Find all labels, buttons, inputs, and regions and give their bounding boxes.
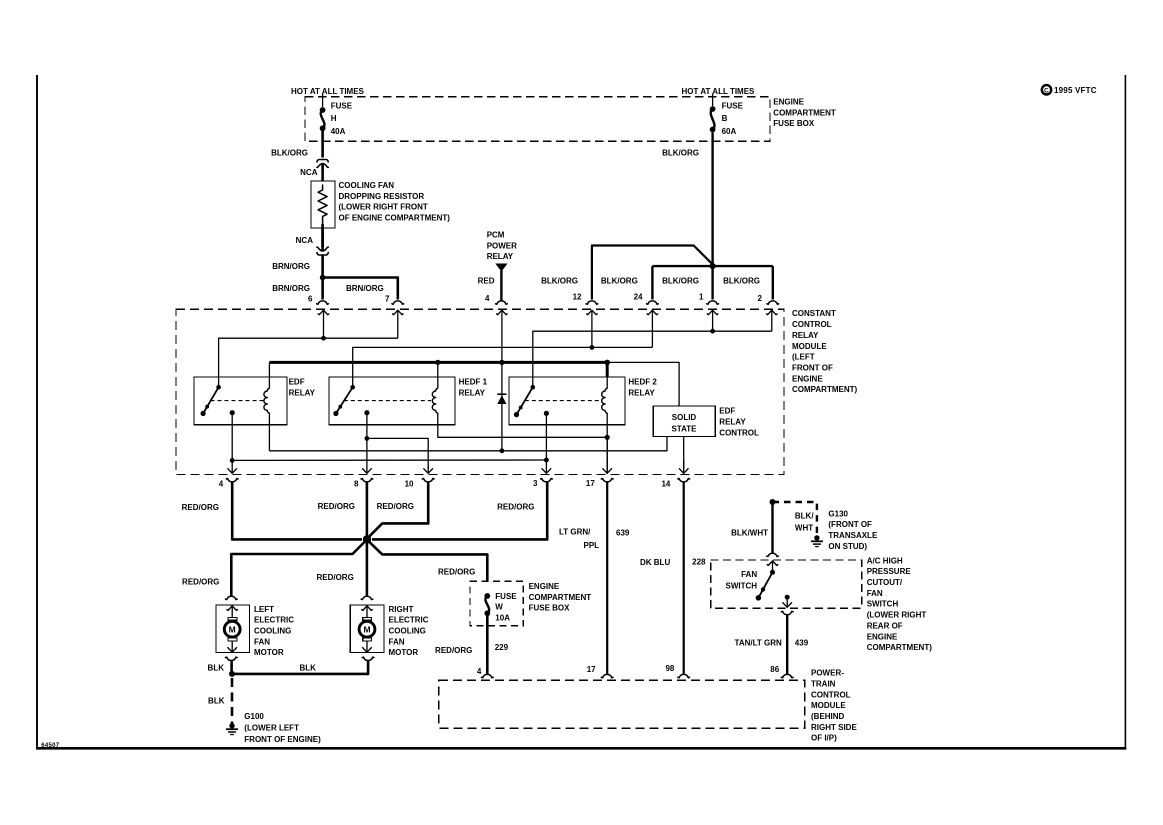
wire TAN/LT GRN 439 (786, 615, 788, 674)
pin 2 entry arrow (771, 310, 773, 331)
pin 10 exit arrow (427, 466, 429, 473)
border bottom (36, 747, 1126, 750)
wire RED/ORG pin 3 to splice (372, 482, 547, 540)
svg-text:439: 439 (795, 638, 809, 647)
svg-text:RED/ORG: RED/ORG (497, 503, 534, 512)
svg-text:RED/ORG: RED/ORG (318, 502, 355, 511)
EDF relay box (194, 377, 287, 425)
svg-text:86: 86 (770, 665, 779, 674)
svg-text:98: 98 (665, 664, 674, 673)
wire bus to solid state (607, 362, 679, 406)
pin 6 entry arrow (323, 310, 325, 338)
svg-text:BRN/ORG: BRN/ORG (272, 284, 310, 293)
fan switch bottom connector (781, 611, 793, 614)
svg-text:BLK/ORG: BLK/ORG (601, 276, 638, 285)
svg-text:TRANSAXLE: TRANSAXLE (828, 531, 878, 540)
pin 24 connector (647, 301, 659, 304)
EDF switch (203, 387, 219, 413)
right electric cooling fan motor (361, 596, 373, 599)
fan switch connector top (767, 553, 779, 556)
svg-text:WHT: WHT (795, 523, 813, 532)
svg-text:LEFT: LEFT (254, 605, 274, 614)
svg-text:B: B (722, 114, 728, 123)
svg-text:FUSE: FUSE (331, 102, 353, 111)
svg-text:10: 10 (405, 480, 414, 489)
svg-text:RELAY: RELAY (792, 331, 819, 340)
HEDF2 armature dashed link (525, 400, 601, 402)
svg-text:4: 4 (477, 667, 482, 676)
svg-text:ON STUD): ON STUD) (828, 542, 867, 551)
svg-text:FAN: FAN (867, 589, 883, 598)
svg-text:TRAIN: TRAIN (811, 679, 836, 688)
left electric cooling fan motor (225, 596, 237, 599)
svg-text:COMPARTMENT: COMPARTMENT (773, 108, 836, 117)
left motor bottom connector (225, 657, 237, 660)
svg-text:12: 12 (573, 293, 582, 302)
svg-text:RIGHT SIDE: RIGHT SIDE (811, 723, 857, 732)
svg-text:RED/ORG: RED/ORG (316, 573, 353, 582)
svg-text:639: 639 (616, 528, 630, 537)
fan switch output contact (785, 595, 790, 600)
node RED/ORG splice (363, 535, 371, 543)
constant control relay module box (176, 309, 784, 474)
pin 4 bottom connector (226, 479, 238, 482)
svg-text:RELAY: RELAY (628, 388, 655, 397)
svg-text:CUTOUT/: CUTOUT/ (867, 578, 903, 587)
node BLK splice (229, 671, 235, 677)
node BLK/WHT splice (770, 499, 776, 505)
cooling fan dropping resistor box (311, 181, 335, 228)
wire coil low to pin 17 (606, 437, 608, 469)
svg-text:64507: 64507 (41, 743, 60, 749)
wire pins 1/2 to HEDF2 switch (533, 331, 772, 387)
fan switch entry arrow (772, 561, 774, 572)
wire pins 6/7 to EDF switch (219, 338, 398, 387)
svg-text:FUSE: FUSE (495, 592, 517, 601)
wire LT GRN/PPL 639 (606, 482, 608, 674)
svg-text:MOTOR: MOTOR (254, 648, 284, 657)
svg-text:24: 24 (634, 293, 643, 302)
ground G130 (814, 535, 819, 540)
pin 14 exit arrow (683, 460, 685, 473)
fuse H 40A (320, 107, 326, 113)
wire EDF output to HEDF2 output link (232, 459, 546, 461)
HEDF1 relay box (329, 377, 455, 425)
svg-text:ENGINE: ENGINE (529, 582, 560, 591)
wire HEDF1 coil to HEDF2 coil low side (438, 426, 607, 437)
pin 7 connector (392, 301, 404, 304)
svg-text:ENGINE: ENGINE (792, 374, 823, 383)
svg-text:ELECTRIC: ELECTRIC (389, 616, 429, 625)
svg-text:(FRONT OF: (FRONT OF (828, 520, 872, 529)
svg-text:LT GRN/: LT GRN/ (559, 528, 591, 537)
svg-text:(LOWER RIGHT: (LOWER RIGHT (867, 611, 927, 620)
pin 24 entry arrow (651, 310, 653, 347)
svg-text:FUSE BOX: FUSE BOX (773, 119, 815, 128)
wire DK BLU (683, 482, 685, 674)
HEDF1 armature dashed link (344, 400, 431, 402)
node diode tap (499, 360, 504, 365)
pin 12 entry arrow (591, 310, 593, 347)
pin 4 exit arrow (231, 460, 233, 473)
wire fuse H feed (322, 94, 324, 108)
svg-text:W: W (495, 603, 503, 612)
svg-text:RELAY: RELAY (289, 388, 316, 397)
EDF coil (268, 362, 270, 388)
pin 17 bottom connector (601, 479, 613, 482)
svg-text:RED/ORG: RED/ORG (435, 646, 472, 655)
wire branch to pin 10 (367, 438, 428, 469)
svg-text:BLK: BLK (300, 663, 317, 672)
svg-text:EDF: EDF (289, 377, 305, 386)
pin 6 connector (317, 301, 329, 304)
PCM pin 17 connector (601, 674, 613, 677)
wire EDF coil low / solid state drive (269, 436, 667, 451)
svg-text:17: 17 (587, 665, 596, 674)
svg-text:8: 8 (354, 480, 359, 489)
svg-text:14: 14 (661, 480, 670, 489)
svg-text:FAN: FAN (389, 637, 405, 646)
svg-text:ENGINE: ENGINE (867, 632, 898, 641)
HEDF2 switch (517, 387, 533, 414)
svg-text:RED/ORG: RED/ORG (377, 502, 414, 511)
svg-text:RELAY: RELAY (487, 252, 514, 261)
svg-text:HEDF 1: HEDF 1 (459, 377, 488, 386)
wire BRN/ORG to pin 6 (321, 278, 324, 300)
copyright 1995 VFTC (1042, 85, 1051, 94)
node pin 12 junction (590, 345, 595, 350)
svg-text:BLK/ORG: BLK/ORG (723, 276, 760, 285)
HEDF1 switch (336, 387, 353, 413)
svg-text:BLK/ORG: BLK/ORG (271, 148, 308, 157)
svg-text:M: M (229, 624, 236, 634)
svg-text:SOLID: SOLID (672, 413, 697, 422)
wire BLK to ground G100 (dashed) (231, 678, 234, 724)
HEDF1 coil (437, 362, 439, 388)
wire BLK/WHT to G130 (dashed) (773, 502, 817, 533)
pin 2 connector (767, 301, 779, 304)
pin 8 exit arrow (366, 438, 368, 473)
PCM pin 4 connector (481, 674, 493, 677)
svg-text:H: H (331, 114, 337, 123)
svg-text:FAN: FAN (254, 637, 270, 646)
HEDF2 coil (606, 377, 608, 388)
svg-text:RED/ORG: RED/ORG (438, 568, 475, 577)
wire BRN/ORG (321, 255, 324, 278)
svg-text:EDF: EDF (719, 407, 735, 416)
fan switch (770, 570, 775, 575)
svg-text:10A: 10A (495, 614, 510, 623)
svg-text:(LEFT: (LEFT (792, 353, 815, 362)
svg-text:G130: G130 (828, 509, 848, 518)
svg-text:MODULE: MODULE (792, 342, 827, 351)
svg-text:229: 229 (495, 643, 509, 652)
svg-text:17: 17 (586, 479, 595, 488)
svg-text:CONTROL: CONTROL (719, 428, 759, 437)
wire BLK link to right motor (232, 661, 368, 674)
svg-text:MOTOR: MOTOR (389, 648, 419, 657)
svg-text:SWITCH: SWITCH (726, 582, 758, 591)
svg-text:FUSE: FUSE (722, 102, 744, 111)
node BRN/ORG splice (320, 275, 326, 281)
wire fuse B feed (712, 94, 714, 107)
node diode to EDF coil low (500, 448, 505, 453)
wire RED/ORG splice to left motor (231, 541, 365, 597)
svg-text:ELECTRIC: ELECTRIC (254, 616, 294, 625)
svg-text:FUSE BOX: FUSE BOX (529, 604, 571, 613)
pin 12 connector (586, 301, 598, 304)
svg-text:FRONT OF: FRONT OF (792, 363, 833, 372)
svg-text:POWER: POWER (487, 241, 517, 250)
svg-text:RED: RED (478, 276, 495, 285)
wire NCA below resistor (321, 224, 324, 247)
wire RED/ORG 229 to PCM (486, 616, 489, 674)
engine compartment fuse box (fuse W) (470, 581, 523, 626)
svg-text:COMPARTMENT): COMPARTMENT) (792, 385, 858, 394)
inline connector NCA (upper) (317, 160, 328, 162)
inline connector NCA (lower) (321, 228, 324, 250)
svg-text:COOLING: COOLING (389, 627, 426, 636)
PCM pin 86 connector (781, 674, 793, 677)
svg-text:1: 1 (699, 293, 704, 302)
node HEDF1 coil tap (435, 360, 440, 365)
wire BLK/ORG branch bus (652, 265, 772, 267)
svg-text:(LOWER LEFT: (LOWER LEFT (244, 724, 299, 733)
svg-text:6: 6 (308, 295, 313, 304)
pin 3 bottom connector (541, 479, 553, 482)
svg-text:ENGINE: ENGINE (773, 98, 804, 107)
node HEDF2 output junction (544, 458, 549, 463)
wire BLK/WHT to fan switch (771, 502, 773, 553)
svg-text:POWER-: POWER- (811, 669, 844, 678)
pin 10 bottom connector (422, 479, 434, 482)
wire RED/ORG pin 10 to splice (369, 482, 429, 537)
svg-text:PPL: PPL (584, 541, 600, 550)
svg-text:BLK/WHT: BLK/WHT (731, 528, 768, 537)
svg-text:DROPPING RESISTOR: DROPPING RESISTOR (339, 192, 425, 201)
svg-text:60A: 60A (722, 127, 737, 136)
svg-text:COMPARTMENT): COMPARTMENT) (867, 643, 933, 652)
svg-text:STATE: STATE (671, 425, 697, 434)
svg-text:FRONT OF ENGINE): FRONT OF ENGINE) (244, 735, 321, 744)
svg-text:RED/ORG: RED/ORG (182, 578, 219, 587)
node EDF output junction (230, 458, 235, 463)
svg-text:NCA: NCA (300, 168, 318, 177)
wire solid state to pin 14 (683, 436, 685, 469)
svg-text:BRN/ORG: BRN/ORG (272, 262, 310, 271)
pin 3 exit arrow (545, 460, 547, 473)
svg-text:HOT AT ALL TIMES: HOT AT ALL TIMES (682, 87, 756, 96)
svg-text:BLK/ORG: BLK/ORG (662, 276, 699, 285)
svg-text:REAR OF: REAR OF (867, 621, 903, 630)
wire to pin 1 (711, 266, 713, 299)
svg-text:COMPARTMENT: COMPARTMENT (529, 593, 592, 602)
svg-text:40A: 40A (331, 127, 346, 136)
EDF armature dashed link (211, 400, 265, 402)
a/c high pressure cutout / fan switch box (711, 560, 862, 608)
HEDF2 coil thick stub (606, 362, 609, 377)
svg-text:3: 3 (533, 479, 538, 488)
svg-text:RIGHT: RIGHT (389, 605, 414, 614)
fuse W 10A (484, 593, 490, 599)
powertrain control module box (439, 680, 805, 728)
svg-text:MODULE: MODULE (811, 701, 846, 710)
pin 1 entry arrow (712, 310, 714, 331)
svg-text:4: 4 (219, 480, 224, 489)
svg-text:COOLING FAN: COOLING FAN (339, 181, 395, 190)
ground G100 (229, 723, 234, 728)
node coil low junction (605, 435, 610, 440)
svg-text:M: M (363, 624, 370, 634)
svg-text:BLK/ORG: BLK/ORG (662, 148, 699, 157)
svg-text:BLK: BLK (208, 697, 225, 706)
wire BLK left motor (230, 661, 233, 674)
svg-text:DK BLU: DK BLU (640, 558, 670, 567)
wire BLK/ORG from fuse B (711, 132, 713, 266)
svg-text:C: C (1044, 87, 1049, 94)
svg-text:RED/ORG: RED/ORG (182, 503, 219, 512)
node HEDF2 coil tap (604, 360, 610, 366)
svg-text:FAN: FAN (741, 570, 757, 579)
svg-text:2: 2 (758, 294, 763, 303)
pin 14 bottom connector (678, 479, 690, 482)
pin 7 entry arrow (397, 310, 399, 338)
HEDF2 relay box (509, 377, 625, 425)
svg-text:CONTROL: CONTROL (811, 690, 851, 699)
svg-text:OF ENGINE COMPARTMENT): OF ENGINE COMPARTMENT) (339, 214, 451, 223)
pin 17 exit arrow (606, 459, 608, 473)
wire BLK/ORG pin 12 riser (592, 246, 713, 300)
solid state box (653, 406, 715, 436)
svg-text:HOT AT ALL TIMES: HOT AT ALL TIMES (291, 87, 365, 96)
engine compartment fuse box (top) (305, 97, 770, 142)
svg-text:CONTROL: CONTROL (792, 320, 832, 329)
node HEDF1 output junction (365, 436, 370, 441)
node BLK/ORG splice at fuse B (710, 263, 716, 269)
svg-text:RELAY: RELAY (719, 417, 746, 426)
svg-text:(LOWER RIGHT FRONT: (LOWER RIGHT FRONT (339, 203, 428, 212)
svg-text:BLK/ORG: BLK/ORG (541, 276, 578, 285)
right motor bottom connector (362, 657, 374, 660)
wire EDF switch output to pin 4 (231, 413, 233, 461)
svg-text:TAN/LT GRN: TAN/LT GRN (735, 638, 782, 647)
svg-text:A/C HIGH: A/C HIGH (867, 556, 903, 565)
svg-text:BLK/: BLK/ (795, 511, 814, 520)
PCM power relay feed arrow (495, 264, 507, 272)
wire BRN/ORG branch to pin 7 (323, 278, 398, 300)
pin 1 connector (707, 301, 719, 304)
wire HEDF1 switch output (366, 413, 368, 439)
svg-text:NCA: NCA (296, 236, 314, 245)
wire to pin 2 (772, 266, 774, 299)
node pin 6 junction (321, 336, 326, 341)
wire RED/ORG pin 8 through splice to right motor (366, 482, 369, 597)
svg-text:7: 7 (385, 295, 390, 304)
coil supply bus (thick) (269, 361, 607, 364)
svg-text:HEDF 2: HEDF 2 (628, 377, 657, 386)
diode CR1 (501, 362, 503, 450)
PCM pin 98 connector (678, 674, 690, 677)
wire BLK/ORG from fuse H (321, 131, 324, 158)
svg-text:BRN/ORG: BRN/ORG (346, 284, 384, 293)
pin 4 entry arrow (501, 310, 503, 362)
border right (1124, 75, 1126, 750)
svg-text:(BEHIND: (BEHIND (811, 712, 845, 721)
svg-text:CONSTANT: CONSTANT (792, 309, 836, 318)
svg-text:PRESSURE: PRESSURE (867, 567, 912, 576)
border left (36, 75, 38, 750)
fuse B 60A (710, 106, 716, 112)
svg-text:BLK: BLK (208, 663, 225, 672)
wire pins 12/24 to HEDF1 switch (353, 347, 653, 387)
svg-text:RELAY: RELAY (459, 388, 486, 397)
svg-text:4: 4 (485, 294, 490, 303)
wire RED/ORG pin 4 to splice (232, 482, 362, 540)
svg-text:COOLING: COOLING (254, 627, 291, 636)
wire RED from PCM power relay (500, 271, 502, 301)
svg-text:G100: G100 (244, 712, 264, 721)
pin 8 bottom connector (361, 479, 373, 482)
wire to pin 24 (651, 266, 653, 299)
svg-text:PCM: PCM (487, 231, 505, 240)
svg-text:OF I/P): OF I/P) (811, 734, 837, 743)
resistor element (318, 185, 327, 224)
svg-text:1995 VFTC: 1995 VFTC (1054, 86, 1097, 95)
node pin 1 junction (710, 329, 715, 334)
wire RED/ORG splice to fuse W (369, 541, 488, 581)
svg-text:228: 228 (692, 558, 706, 567)
svg-text:SWITCH: SWITCH (867, 600, 899, 609)
wire HEDF2 switch output (545, 413, 547, 460)
pin 4 connector (496, 301, 508, 304)
